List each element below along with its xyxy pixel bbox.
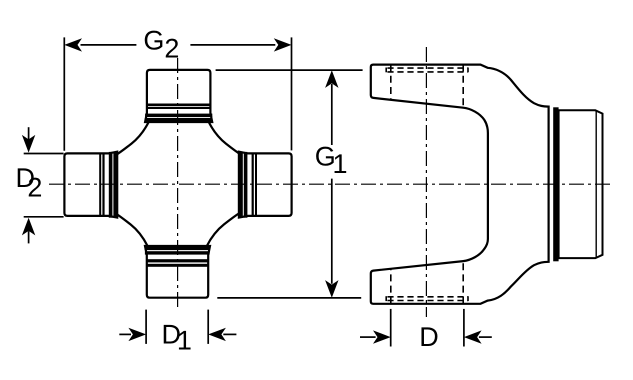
- shaft tube: [559, 110, 603, 258]
- svg-text:2: 2: [27, 172, 42, 202]
- bearing cup right: [239, 152, 292, 218]
- wire vertical centerline right view: [425, 47, 427, 317]
- bearing cup left: [64, 152, 117, 218]
- hidden snap ring groove bottom: [386, 296, 468, 301]
- wire vertical centerline left view: [177, 58, 179, 310]
- svg-text:D: D: [419, 322, 439, 352]
- bearing cup top: [145, 70, 213, 123]
- dimension G1: [325, 70, 338, 298]
- wire horizontal centerline: [49, 183, 611, 185]
- svg-text:G: G: [143, 26, 164, 56]
- svg-text:1: 1: [333, 149, 348, 179]
- dimension D2: [22, 127, 64, 243]
- G1 reference line bottom: [217, 297, 361, 299]
- hidden hole line top-left vertical: [390, 65, 392, 100]
- node cross body diagonal top-left: [116, 122, 149, 155]
- dimension D1: [119, 310, 236, 344]
- node cross body diagonal bottom-left: [115, 213, 148, 246]
- node cross body diagonal bottom-right: [207, 213, 240, 246]
- dimension D: [360, 309, 492, 347]
- yoke body outline: [371, 65, 549, 304]
- hidden hole line bottom-right vertical: [462, 261, 464, 304]
- svg-text:1: 1: [177, 326, 192, 356]
- bearing cup bottom: [145, 246, 210, 298]
- shaft tube end chamfer line: [595, 111, 597, 257]
- hidden hole line bottom-left vertical: [390, 269, 392, 304]
- yoke flange weld band: [553, 107, 558, 261]
- hidden hole line top-right vertical: [462, 65, 464, 108]
- G1 reference line top: [216, 69, 363, 71]
- dimension G2: [64, 37, 291, 150]
- node cross body diagonal top-right: [209, 122, 242, 155]
- hidden snap ring groove top: [386, 68, 468, 73]
- svg-text:2: 2: [164, 34, 179, 64]
